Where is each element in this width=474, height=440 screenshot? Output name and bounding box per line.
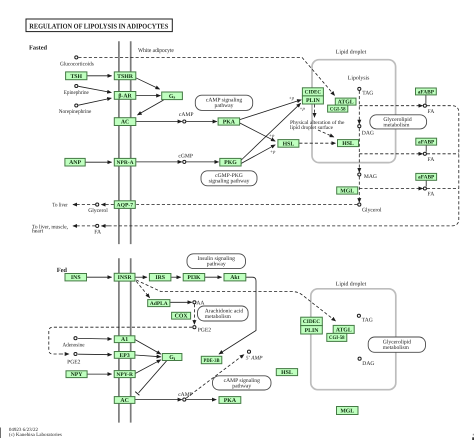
svg-text:INSR: INSR <box>118 275 133 281</box>
svg-text:NPY: NPY <box>71 372 84 378</box>
svg-text:Lipid droplet: Lipid droplet <box>336 49 367 56</box>
svg-text:AdPLA: AdPLA <box>150 301 168 307</box>
svg-text:NPY-R: NPY-R <box>116 372 133 378</box>
svg-text:PKG: PKG <box>224 160 237 166</box>
svg-text:(c) Kanehisa Laboratories: (c) Kanehisa Laboratories <box>9 432 62 438</box>
svg-text:metabolism: metabolism <box>383 345 410 351</box>
svg-text:PKA: PKA <box>224 398 237 404</box>
svg-text:FA: FA <box>428 157 435 163</box>
svg-text:CIDEC: CIDEC <box>303 319 320 325</box>
svg-text:EP3: EP3 <box>119 353 129 359</box>
svg-text:PLIN: PLIN <box>305 328 320 334</box>
svg-text:AQP-7: AQP-7 <box>117 202 134 208</box>
svg-text:+p: +p <box>269 134 275 139</box>
svg-text:HSL: HSL <box>342 141 354 147</box>
svg-text:TAG: TAG <box>362 90 373 96</box>
svg-text:To liver: To liver <box>52 203 68 209</box>
svg-text:β-AR: β-AR <box>118 92 132 99</box>
svg-text:FA: FA <box>94 230 101 236</box>
svg-text:DAG: DAG <box>362 361 374 367</box>
svg-text:COX: COX <box>175 314 189 320</box>
svg-text:pathway: pathway <box>232 383 251 389</box>
svg-text:DAG: DAG <box>362 130 374 136</box>
svg-text:+p: +p <box>270 150 276 155</box>
svg-text:PKA: PKA <box>223 119 236 125</box>
svg-text:PGE2: PGE2 <box>198 328 212 334</box>
svg-text:Glycerol: Glycerol <box>362 208 382 214</box>
svg-text:CIDEC: CIDEC <box>305 90 322 96</box>
svg-text:INS: INS <box>71 275 81 281</box>
svg-text:HSL: HSL <box>283 141 295 147</box>
svg-text:White adipocyte: White adipocyte <box>138 47 174 54</box>
svg-text:REGULATION OF LIPOLYSIS IN ADI: REGULATION OF LIPOLYSIS IN ADIPOCYTES <box>29 22 168 30</box>
svg-text:aFABP: aFABP <box>418 175 435 181</box>
svg-text:Glucocorticoids: Glucocorticoids <box>60 61 94 67</box>
svg-text:Epinephrine: Epinephrine <box>64 90 89 96</box>
svg-text:ATGL: ATGL <box>336 327 352 333</box>
svg-text:ANP: ANP <box>69 160 81 166</box>
svg-text:signaling pathway: signaling pathway <box>209 179 250 185</box>
svg-text:TSHR: TSHR <box>117 74 134 80</box>
svg-text:CGI-58: CGI-58 <box>330 106 346 112</box>
svg-text:Norepinephrine: Norepinephrine <box>59 109 92 115</box>
svg-text:Lipid droplet: Lipid droplet <box>336 281 367 288</box>
svg-text:A1: A1 <box>121 337 128 343</box>
svg-text:CGI-58: CGI-58 <box>329 335 345 341</box>
svg-text:cGMP: cGMP <box>178 153 193 159</box>
svg-text:MAG: MAG <box>364 174 377 180</box>
svg-text:aFABP: aFABP <box>418 89 435 95</box>
svg-text:Gs: Gs <box>169 94 176 100</box>
svg-text:metabolism: metabolism <box>383 122 410 128</box>
svg-text:AC: AC <box>121 120 129 126</box>
svg-text:PLIN: PLIN <box>306 98 321 104</box>
svg-text:cAMP: cAMP <box>179 112 194 118</box>
svg-text:MGL: MGL <box>340 408 354 414</box>
svg-text:Akt: Akt <box>230 274 239 281</box>
svg-text:PGE2: PGE2 <box>67 359 81 365</box>
svg-text:Fed: Fed <box>57 267 68 274</box>
svg-text:Glycerol: Glycerol <box>88 208 108 214</box>
svg-text:FA: FA <box>428 109 435 115</box>
svg-text:heart: heart <box>32 229 44 235</box>
svg-text:Lipolysis: Lipolysis <box>348 75 370 82</box>
svg-text:aFABP: aFABP <box>418 139 435 145</box>
svg-text:pathway: pathway <box>207 262 226 268</box>
svg-text:Fasted: Fasted <box>29 44 48 51</box>
svg-text:IRS: IRS <box>155 275 165 281</box>
svg-text:PI3K: PI3K <box>187 275 201 281</box>
svg-text:Adenosine: Adenosine <box>63 342 85 348</box>
svg-text:FA: FA <box>428 192 435 198</box>
svg-text:MGL: MGL <box>340 188 354 194</box>
svg-text:TSH: TSH <box>70 74 82 80</box>
svg-text:pathway: pathway <box>215 103 234 109</box>
svg-text:5' AMP: 5' AMP <box>246 355 263 361</box>
svg-text:PDE-3B: PDE-3B <box>204 358 220 364</box>
svg-text:cAMP: cAMP <box>178 392 193 398</box>
svg-text:+p: +p <box>289 96 295 101</box>
svg-text:metabolism: metabolism <box>205 314 232 320</box>
svg-text:+p: +p <box>299 107 305 112</box>
svg-text:NPR-A: NPR-A <box>117 160 134 166</box>
svg-text:TAG: TAG <box>362 317 373 323</box>
svg-text:AA: AA <box>196 301 204 307</box>
svg-text:lipid droplet surface: lipid droplet surface <box>290 125 334 131</box>
svg-text:HSL: HSL <box>281 370 293 376</box>
svg-text:Gi: Gi <box>169 355 176 361</box>
svg-text:AC: AC <box>120 398 128 404</box>
